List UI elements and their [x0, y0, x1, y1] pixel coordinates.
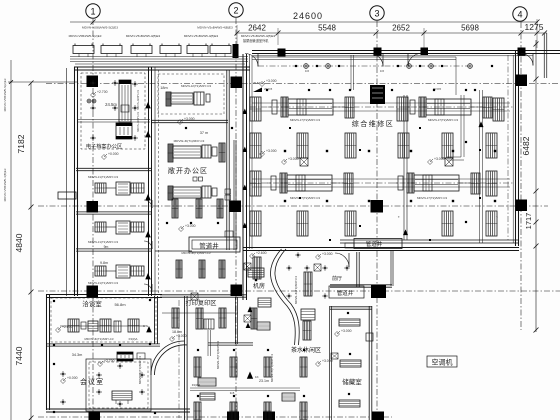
svg-text:1717: 1717 [524, 213, 533, 230]
print cluster triangle 2 [246, 323, 251, 328]
pipe run hall top [252, 56, 456, 58]
svg-text:管道井: 管道井 [199, 241, 219, 250]
svg-text:24600: 24600 [293, 11, 323, 21]
black triangle bottom [247, 372, 253, 379]
hall FCU vertical units row2 [250, 133, 261, 158]
open office small squares [193, 177, 197, 181]
column grid4 top wall [518, 48, 526, 56]
hall scatter dots [289, 127, 291, 129]
office room 1 FCU row [95, 183, 106, 193]
print cluster damper [244, 315, 251, 322]
svg-text:MDVN-Jb(T1)/M3Y-C3: MDVN-Jb(T1)/M3Y-C3 [85, 337, 114, 341]
mid room right wall [226, 70, 228, 250]
negotiation corner dots [53, 300, 55, 302]
tea area vunit 2 [303, 321, 311, 340]
archive room ceiling grid [81, 73, 145, 149]
storage FCU 3 [339, 400, 360, 407]
hall bottom wall [243, 247, 519, 249]
open office lower line [155, 250, 192, 252]
column D2 [231, 285, 243, 297]
room 37 elevation [178, 120, 183, 125]
riser connection box [233, 44, 239, 58]
hall FCU assembly row3 left [271, 176, 276, 190]
bottom wall meeting room [46, 408, 190, 410]
svg-text:37 m: 37 m [200, 131, 208, 135]
storage right wall [368, 306, 370, 420]
column A4 [516, 75, 528, 87]
right wall dots [465, 89, 467, 91]
column grid3 top wall [374, 48, 382, 56]
grid line 2 vertical [235, 18, 237, 418]
svg-text:MDVN-J5(T1)/M3Y-C3: MDVN-J5(T1)/M3Y-C3 [216, 341, 220, 369]
svg-text:MDVN-V5B4/W5-4(B)E3: MDVN-V5B4/W5-4(B)E3 [3, 168, 7, 201]
hall row2 dots [284, 150, 286, 152]
mid room divider [152, 119, 228, 121]
svg-text:MDVN-J7(T2)/M3Y-C3: MDVN-J7(T2)/M3Y-C3 [290, 196, 320, 200]
bottom FCU dots [197, 349, 199, 351]
grid bubble 4 [513, 7, 527, 21]
top wall negotiation room [46, 294, 162, 296]
extension line left top [8, 81, 78, 83]
svg-text:7440: 7440 [14, 346, 24, 365]
svg-text:+3.000: +3.000 [176, 334, 187, 338]
svg-text:MDVW-Jb(T1)/M3Y-C3: MDVW-Jb(T1)/M3Y-C3 [174, 139, 205, 143]
damper box row3 left [300, 158, 308, 166]
svg-text:MDVN-J2(T1)/M3Y-C3: MDVN-J2(T1)/M3Y-C3 [181, 84, 211, 88]
svg-text:空调机: 空调机 [432, 358, 453, 367]
door hall top 2 [408, 54, 421, 67]
svg-text:MDVN-J7(T2)/M3Y-C3: MDVN-J7(T2)/M3Y-C3 [417, 196, 447, 200]
print area elevation [170, 337, 175, 342]
svg-text:MDVN-V(08)A/W5-S(2)E3: MDVN-V(08)A/W5-S(2)E3 [82, 26, 118, 30]
column C2 [230, 201, 242, 213]
storage elevation [335, 332, 340, 337]
meeting ceiling grid [89, 362, 148, 408]
grid line C horizontal [38, 205, 548, 207]
svg-text:24.5m: 24.5m [105, 102, 117, 107]
tea area vunit tall [304, 272, 312, 296]
grid line 1 vertical [92, 19, 94, 418]
door top corridor [245, 54, 258, 67]
corridor dashdot [178, 300, 180, 418]
negotiation elevation [56, 328, 61, 333]
print area left wall [154, 296, 156, 344]
svg-text:4840: 4840 [14, 233, 24, 252]
svg-text:3x5: 3x5 [305, 69, 310, 73]
left exterior wall upper [74, 67, 76, 296]
tea area FCU [301, 309, 315, 320]
pipe shaft 3 box [329, 286, 364, 298]
archive room elevation [102, 155, 107, 160]
column E2b [263, 412, 275, 420]
svg-text:综合维修区: 综合维修区 [352, 119, 395, 128]
column mid top wall [421, 48, 429, 56]
corridor riser arrows [242, 109, 247, 114]
hall FCU vertical units row4 [250, 211, 261, 236]
svg-text:23.1m: 23.1m [259, 379, 269, 383]
open office row A dots [166, 222, 168, 224]
svg-text:接屋面管道室外机: 接屋面管道室外机 [243, 38, 269, 43]
S-curve duct wall [270, 249, 299, 345]
room 18 dots [185, 127, 187, 129]
svg-text:3x5: 3x5 [230, 391, 235, 395]
office right wall / shaft [148, 67, 150, 296]
svg-text:+3.000: +3.000 [341, 329, 352, 333]
meeting room inner wall [46, 343, 160, 345]
office room 2 FCU row [95, 222, 106, 232]
machine room FCU [248, 268, 264, 277]
row1 flow arrow [253, 88, 262, 93]
hall top wall [252, 50, 533, 52]
svg-text:管道井: 管道井 [366, 240, 383, 248]
shaft wall 2 [233, 140, 235, 250]
hall FCU vertical unit row1 c [493, 98, 504, 121]
svg-text:敞开办公区: 敞开办公区 [168, 166, 208, 175]
hall riser pipes right [403, 95, 405, 240]
svg-text:+3.000: +3.000 [434, 157, 445, 161]
extension lines top [236, 25, 238, 45]
grid line D horizontal [38, 290, 560, 292]
pipe shaft 2 box [354, 239, 402, 249]
archive room AHU tall unit [119, 80, 131, 122]
svg-text:5548: 5548 [318, 24, 336, 33]
tea crosses [286, 267, 291, 269]
open office FCU assembly B [168, 186, 173, 200]
storage top wall [330, 306, 372, 308]
print area FCU vertical c [219, 308, 226, 328]
bottom horizontal FCU a [198, 378, 216, 386]
storage damper box [331, 353, 338, 359]
meeting corner dots [53, 363, 55, 365]
svg-text:2652: 2652 [392, 24, 410, 33]
grid line B horizontal [46, 83, 560, 85]
left boundary line [10, 60, 12, 420]
negotiation FCU row [68, 319, 79, 332]
grid bubble 3 [370, 6, 384, 20]
svg-text:+3.000: +3.000 [184, 117, 195, 121]
storage left partial wall [328, 306, 330, 420]
hall FCU vertical unit row1 a [250, 97, 261, 121]
hall top wall inner line [252, 55, 533, 57]
door front hall [335, 253, 349, 267]
archive sprinkler pair [87, 99, 91, 103]
svg-text:25.5X: 25.5X [253, 81, 260, 85]
open office elevation [179, 227, 184, 232]
office door arcs [144, 200, 152, 208]
room 18 FCU assembly [166, 92, 171, 106]
right wall inner dashline [507, 55, 509, 240]
svg-text:+3.000: +3.000 [266, 149, 277, 153]
door hall right top [521, 54, 533, 66]
column E1 [89, 412, 101, 420]
svg-text:2642: 2642 [248, 24, 266, 33]
hall FCU vertical unit row3 a [250, 171, 261, 196]
hall row3 pipe lines [252, 178, 510, 180]
print area FCU vertical a [172, 308, 179, 328]
svg-text:MDVN-J1(T1)/M3Y-C3: MDVN-J1(T1)/M3Y-C3 [88, 281, 118, 285]
AC room label [427, 356, 457, 367]
machine room vunit [253, 257, 261, 279]
column A2 [231, 77, 243, 89]
print area connect line [162, 312, 238, 314]
svg-text:MDVN-J5(T1)/M3Y-C3: MDVN-J5(T1)/M3Y-C3 [270, 354, 274, 382]
svg-text:会议室: 会议室 [80, 377, 104, 386]
negotiation pipe [60, 325, 145, 327]
hall FCU vertical unit row3 d [486, 171, 497, 196]
hall centreline row1 [250, 106, 514, 108]
svg-text:MDVN-V5xB4/W5-4(B)E3: MDVN-V5xB4/W5-4(B)E3 [184, 34, 219, 38]
bottom horizontal FCU c [282, 393, 295, 401]
svg-text:+2.600: +2.600 [62, 325, 73, 329]
column B1 top wall [278, 49, 286, 57]
column D3 [371, 285, 386, 298]
hall FCU vertical unit row1 b [397, 97, 408, 121]
bottom FCU columns row2 [194, 402, 201, 420]
svg-text:洽谈室: 洽谈室 [82, 299, 102, 308]
tea damper boxes [244, 263, 251, 270]
svg-text:+0.000: +0.000 [108, 152, 119, 156]
svg-text:+3.000: +3.000 [185, 224, 196, 228]
svg-text:+3.000: +3.000 [266, 79, 277, 83]
svg-text:MDVN-Jb(T1)/M3Y-C3: MDVN-Jb(T1)/M3Y-C3 [294, 276, 298, 304]
svg-text:储藏室: 储藏室 [342, 377, 362, 386]
front hall right wall [390, 250, 392, 286]
office top wall [76, 167, 152, 169]
column E2 [227, 412, 239, 420]
grid line E horizontal [38, 416, 392, 418]
svg-text:25.5X5: 25.5X5 [264, 87, 273, 91]
svg-text:MDVN-J1(T1)/M3Y-C3: MDVN-J1(T1)/M3Y-C3 [88, 175, 118, 179]
svg-text:MDVN-J2/MY-C3: MDVN-J2/MY-C3 [136, 90, 140, 110]
svg-text:5698: 5698 [461, 24, 479, 33]
hall elevation row3 left [282, 160, 287, 165]
room 37 FCU assembly [168, 144, 173, 162]
left dimension line [30, 83, 32, 420]
svg-text:MDVN-V5B4/W5-S(2)E3: MDVN-V5B4/W5-S(2)E3 [69, 34, 102, 38]
negotiation triangle [146, 326, 152, 332]
corridor wall / main riser [242, 54, 244, 300]
svg-text:3x5: 3x5 [380, 69, 385, 73]
pipe run across archive room [78, 119, 150, 121]
column C3 [371, 200, 384, 213]
hall riser arrow [403, 229, 408, 235]
column A1 [87, 76, 99, 88]
svg-text:34.3m: 34.3m [72, 353, 83, 357]
right riser triangle [478, 121, 483, 127]
svg-text:56.8m: 56.8m [114, 302, 126, 307]
meeting FCU bottom [112, 391, 132, 400]
grid bubble 1 [86, 4, 100, 18]
svg-text:T.: T. [398, 215, 401, 219]
svg-text:1: 1 [90, 7, 95, 17]
meeting platform border [86, 359, 151, 411]
hall right wall [515, 50, 517, 246]
svg-text:MDVN-V5xB4/W5-4(B)E3: MDVN-V5xB4/W5-4(B)E3 [126, 34, 161, 38]
column A3 riser block [370, 85, 385, 104]
svg-text:4: 4 [517, 10, 522, 20]
wall step left [58, 192, 76, 199]
pipe run along top wall [70, 56, 248, 58]
pipe elbow to assembly2 [460, 95, 462, 157]
bottom horizontal FCU b [200, 393, 215, 400]
svg-text:茶水休闲区: 茶水休闲区 [291, 346, 321, 354]
tea elevation [316, 362, 321, 367]
dark box pipes down [207, 330, 209, 356]
front hall wall [356, 252, 358, 287]
svg-text:前厅: 前厅 [332, 275, 342, 282]
print area dark box [204, 319, 214, 329]
svg-text:+0.000: +0.000 [67, 376, 78, 380]
negotiation ceiling grid [51, 298, 156, 342]
meeting crosses [96, 374, 102, 376]
print area FCU vertical b [196, 308, 203, 329]
right dimension line [535, 40, 537, 332]
room 18 ceiling [158, 74, 224, 114]
archive riser arrows [145, 102, 151, 108]
print area top wall [160, 294, 246, 296]
office room 3 FCU row [95, 266, 106, 276]
dimension line second row [237, 32, 547, 34]
dimension line 24600 [70, 21, 538, 23]
left wing top wall [74, 66, 250, 68]
hall centreline row3 [250, 182, 514, 184]
meeting elevation [61, 379, 66, 384]
column E3 [372, 412, 384, 420]
svg-text:18m: 18m [160, 86, 167, 90]
lower-left exterior wall [46, 294, 48, 410]
svg-text:+3.000: +3.000 [322, 359, 333, 363]
storage FCU 1 [339, 319, 360, 326]
right corner wall [543, 33, 545, 78]
shaft boxes [225, 189, 231, 194]
door hall top 1 [370, 54, 383, 67]
outdoor unit row on roof [73, 46, 94, 54]
svg-text:MDVN-Jb(T1)/M3Y-C3: MDVN-Jb(T1)/M3Y-C3 [138, 356, 142, 384]
column D1 [87, 286, 99, 298]
svg-text:MDVN-J7(T2)/M3Y-C3: MDVN-J7(T2)/M3Y-C3 [290, 118, 320, 122]
grid bubble 2 [229, 3, 243, 17]
office divider wall 1 [76, 211, 152, 213]
svg-text:MDVN-J1(T1)/M3Y-C3: MDVN-J1(T1)/M3Y-C3 [88, 240, 118, 244]
damper box hall [445, 158, 453, 166]
hall mid dots row [284, 200, 286, 202]
corridor wall below column [234, 297, 236, 344]
grid line 4 vertical [520, 22, 522, 330]
bottom FCU columns row1 [194, 357, 201, 377]
print triangle [247, 306, 252, 312]
tea area left wall [184, 296, 186, 420]
svg-text:MDVN-J2/MY-C3: MDVN-J2/MY-C3 [136, 112, 140, 132]
svg-text:MDVN-V5xB4/W5-4(B)E3: MDVN-V5xB4/W5-4(B)E3 [197, 26, 233, 30]
svg-text:T.: T. [496, 215, 499, 219]
svg-text:+2.700: +2.700 [104, 359, 115, 363]
svg-text:7182: 7182 [16, 134, 26, 153]
svg-text:机房: 机房 [253, 282, 265, 290]
svg-text:9m: 9m [104, 245, 109, 249]
storage FCU 2 [340, 360, 361, 367]
svg-text:电子档案办公区: 电子档案办公区 [86, 142, 122, 150]
svg-text:2: 2 [233, 6, 238, 16]
svg-text:管道井: 管道井 [337, 289, 354, 297]
archive room crosses [90, 82, 96, 84]
svg-text:1275: 1275 [525, 22, 544, 32]
office divider wall 2 [76, 248, 152, 250]
front hall lower wall [330, 284, 392, 286]
hall FCU assembly row1 left [272, 100, 277, 114]
open office FCU row B [176, 260, 182, 278]
right pipe riser [479, 90, 481, 243]
svg-text:MDVN-J7(T2)/M3Y-C3: MDVN-J7(T2)/M3Y-C3 [428, 118, 458, 122]
top wall extension right [533, 50, 560, 52]
hall upper dots row [266, 89, 268, 91]
print area damper [191, 293, 198, 300]
column C1 [87, 201, 99, 213]
svg-text:+2.700: +2.700 [97, 90, 108, 94]
hall FCU assembly row3 right [398, 176, 403, 190]
svg-text:9.8m: 9.8m [100, 261, 108, 265]
svg-text:+3.000: +3.000 [322, 252, 333, 256]
svg-text:F3(3)A: F3(3)A [129, 337, 138, 341]
svg-text:打印复印区: 打印复印区 [186, 299, 217, 307]
fcu cluster lower [258, 298, 271, 307]
curved corridor wall [151, 341, 188, 375]
svg-text:3: 3 [374, 9, 379, 19]
svg-text:6482: 6482 [521, 136, 531, 155]
hall elevation mark 2 [260, 152, 265, 157]
hall row1 pipe lines [252, 102, 510, 104]
sprinkler symbols top corridor [295, 65, 297, 67]
pipe run bottom [190, 387, 300, 389]
svg-text:+2.600: +2.600 [256, 251, 267, 255]
svg-text:MDVN-V5B4/W5-S(2)E3: MDVN-V5B4/W5-S(2)E3 [3, 78, 7, 111]
pipe shaft 1 box [189, 237, 240, 252]
hall FCU assembly row1 right [410, 100, 415, 114]
open office vunits below [172, 199, 178, 218]
grid line 3 vertical [376, 21, 378, 418]
column C4 [516, 200, 528, 212]
right wall inner line [512, 55, 514, 243]
archive elevation 2700 [91, 93, 96, 98]
archive room FCU lower [116, 123, 132, 139]
storage right wall notch [366, 333, 373, 341]
svg-text:+3.000: +3.000 [288, 157, 299, 161]
svg-text:MDVN-V5xB4/W5-4(B)E3: MDVN-V5xB4/W5-4(B)E3 [241, 34, 276, 38]
meeting small box [137, 353, 145, 359]
hall elevation mark [428, 160, 433, 165]
meeting FCU top [117, 352, 133, 361]
sprinkler line top corridor [258, 65, 470, 67]
tea top wall [208, 342, 253, 344]
hall bottom inner wall [340, 239, 519, 241]
